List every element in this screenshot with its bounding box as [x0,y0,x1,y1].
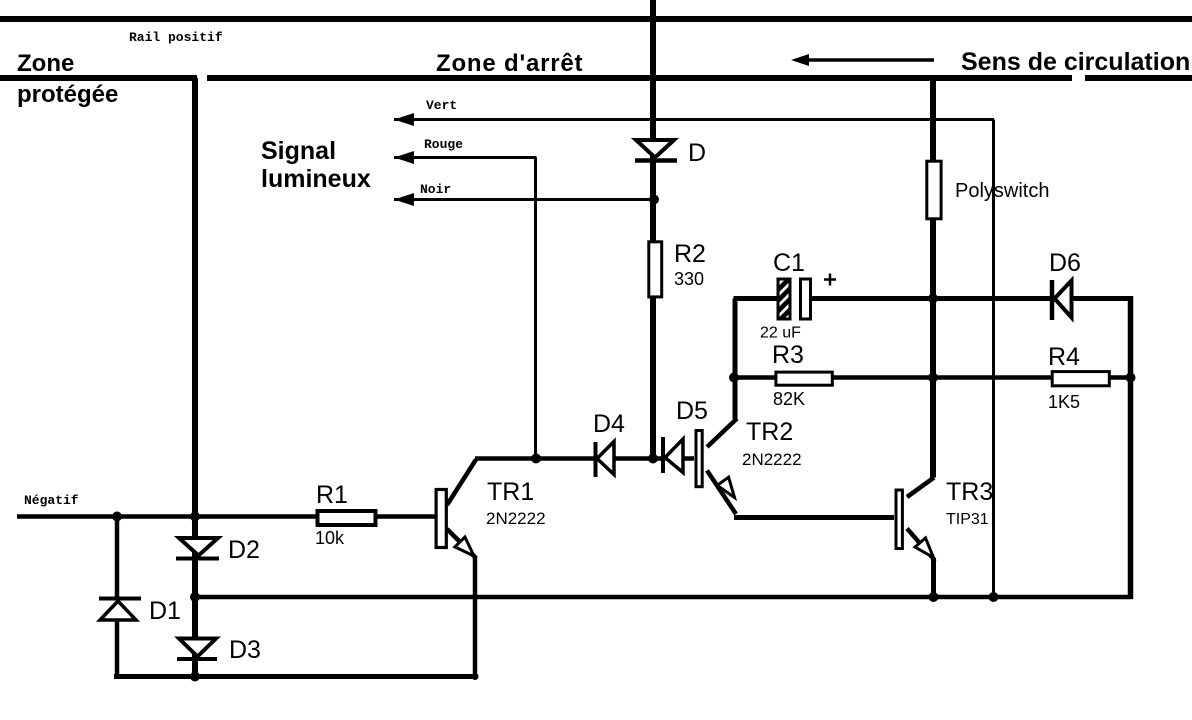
svg-text:Vert: Vert [426,98,457,113]
junction: TR3 emitter to bottom mid rail [929,592,939,602]
wire: Rouge vertical drop to TR1 collector node [534,158,537,460]
wire: zone d'arret rail [207,75,1072,81]
capacitor C1 wire left segment [734,296,781,301]
resistor R1 (on negatif line) [318,511,376,525]
junction: bottom return line to TR1 emitter corner [472,673,479,680]
arrow: sens de circulation direction [806,58,934,62]
svg-text:2N2222: 2N2222 [742,450,802,469]
wire: Vert vertical drop to bottom rail [992,120,995,598]
svg-text:lumineux: lumineux [261,165,371,193]
svg-text:D2: D2 [228,536,260,564]
wire: TR2 collector vertical up to C1 node [733,299,738,420]
svg-text:TR3: TR3 [946,478,993,506]
wire: Rouge output line with arrow [394,156,537,159]
wire: left vertical (zone protegee / negatif branch with D2 D3) [192,78,198,676]
junction: negatif to left vertical [190,512,200,522]
svg-text:Rouge: Rouge [424,137,463,152]
svg-text:TR2: TR2 [746,418,793,446]
svg-text:Signal: Signal [261,137,336,165]
resistor R4 [1052,372,1109,386]
svg-text:10k: 10k [315,528,345,548]
resistor R2 [649,242,662,297]
wire: D1 branch vertical upper [115,517,120,599]
wire: Noir output line with arrow [394,198,654,201]
junction: R3 line to TR2 collector vertical [729,373,739,383]
junction: rouge drop to TR1 collector line [531,454,541,464]
svg-text:330: 330 [674,269,704,289]
svg-text:D3: D3 [229,636,261,664]
wire: Vert output line with arrow [394,118,994,121]
svg-text:Négatif: Négatif [24,493,79,508]
junction: negatif to D1 branch [112,512,122,522]
junction: left vertical to bottom mid rail [190,592,200,602]
diode D3 (on left vertical) [179,639,216,657]
junction: Noir line to main vertical [649,195,659,205]
svg-text:Sens de circulation: Sens de circulation [961,48,1190,76]
transistor TR2 (2N2222) [707,419,737,448]
junction: R4 to right vertical [1126,373,1136,383]
resistor R3 [776,372,832,385]
svg-text:Rail positif: Rail positif [129,30,223,45]
capacitor C1 (22 uF) [778,279,790,319]
junction: R3/R4 line to central vertical [928,373,938,383]
polyswitch [927,161,941,219]
wire: zone protegee rail (left) [0,75,197,81]
wire: bottom return line (D1/D3 to TR1 emitter) [114,674,477,679]
wire: TR1 emitter vertical down to bottom return line [473,556,478,677]
wire: D1 branch vertical lower [115,619,120,677]
svg-text:22 uF: 22 uF [760,325,801,342]
diode D (on main vertical) [636,140,674,158]
diode D2 (on left vertical) [179,538,218,556]
diode D1 [99,597,141,601]
diode D5 [661,437,665,473]
svg-text:R4: R4 [1048,343,1080,371]
wire: main vertical net from rail positif down through D and R2 [650,0,656,458]
svg-text:D5: D5 [676,397,708,425]
svg-text:D1: D1 [149,597,181,625]
junction: left vertical to bottom return line [190,672,200,682]
wire: bottom mid rail (node joining D1/D2/D3, TR3 emitter, vert line, right vertical) [195,595,1132,600]
wire: central vertical (zone d'arret rail through polyswitch to TR3 collector) [930,81,936,478]
wire: R3/R4 line [736,375,1131,380]
diode D4 [594,442,598,477]
svg-text:2N2222: 2N2222 [486,509,546,528]
transistor TR3 (TIP31) [907,478,934,498]
svg-text:Zone d'arrêt: Zone d'arrêt [436,50,583,77]
wire: zone d'arret rail right segment [1085,75,1192,81]
wire: rail positif (top positive rail) [0,16,1192,22]
svg-text:TIP31: TIP31 [946,511,989,528]
junction: vert drop to bottom mid rail [989,592,999,602]
svg-text:TR1: TR1 [487,478,534,506]
diode D6 [1050,280,1055,320]
label "+" (C1 polarity) [824,278,836,281]
junction: main vertical (R2) to D4-D5 wire [648,454,658,464]
junction: C1 wire to central vertical [928,294,938,304]
wire: right vertical (D6/R4 to bottom rail) [1128,296,1134,599]
wire: TR2 emitter to TR3 base [734,515,894,520]
svg-text:C1: C1 [773,249,805,277]
svg-text:Polyswitch: Polyswitch [955,180,1049,202]
svg-text:1K5: 1K5 [1048,392,1080,412]
svg-text:Noir: Noir [420,182,451,197]
svg-text:82K: 82K [773,389,805,409]
wire: TR1 collector line to D4, D5, TR2 base [475,456,694,461]
svg-text:R1: R1 [316,481,348,509]
wire: negatif line [17,514,436,519]
svg-text:R3: R3 [772,341,804,369]
svg-text:protégée: protégée [17,81,118,108]
svg-text:Zone: Zone [17,50,74,77]
svg-text:D: D [688,139,706,167]
svg-text:D4: D4 [593,410,625,438]
wire: TR3 emitter vertical to bottom mid rail [931,558,936,597]
capacitor C1 wire right segment to D6 and right vertical [809,296,1132,301]
svg-text:D6: D6 [1049,249,1081,277]
svg-text:R2: R2 [674,240,706,268]
transistor TR1 (2N2222) [447,460,476,506]
